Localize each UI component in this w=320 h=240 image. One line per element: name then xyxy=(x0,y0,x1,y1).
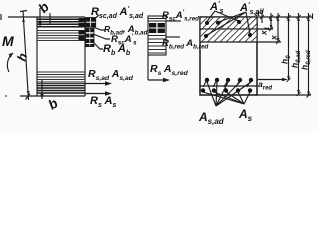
fan lines lower dots to As label point xyxy=(203,92,250,104)
svg-text:M: M xyxy=(2,33,14,49)
bottom edge line extended left xyxy=(20,95,85,97)
hatched compression band 2 xyxy=(201,30,257,42)
stripe between bottom bands xyxy=(37,83,85,85)
speck near bottom line xyxy=(5,95,7,97)
lower added-layer band lines xyxy=(200,85,257,87)
leader to label Rsc A's xyxy=(93,34,110,39)
stems from upper dots xyxy=(203,80,251,87)
top compression stripes band Rb,ad xyxy=(37,19,85,27)
leader Rb,red Ab,red xyxy=(166,36,180,38)
x1 dimension line xyxy=(270,13,272,29)
h0,ad dimension line xyxy=(298,13,300,94)
h0,red dimension line xyxy=(308,13,310,96)
upper tension dots row As,ad xyxy=(205,78,253,82)
fan lines from A's xyxy=(207,11,239,22)
bottom tension stripes band upper xyxy=(37,72,85,82)
top reinforcement dots A's row xyxy=(205,20,241,25)
cell column border xyxy=(86,18,96,27)
hatched compression band 1 xyxy=(201,18,257,29)
block top stripes xyxy=(148,19,166,22)
bottom tension stripes band lower xyxy=(37,86,85,94)
h0 dimension line xyxy=(288,13,290,80)
second compression stripes band Rb xyxy=(37,31,85,41)
b tick second xyxy=(49,13,51,24)
block lower stripes xyxy=(148,36,166,54)
leader to label Rb Ab xyxy=(93,42,103,49)
lower tension dots row As xyxy=(201,88,252,92)
reinforcement force cell column (A's blocks) xyxy=(86,18,96,47)
top edge line extended left xyxy=(8,16,85,18)
a' dim tick xyxy=(261,11,263,23)
fan lines from A's,ad xyxy=(207,12,250,35)
a_red dimension line xyxy=(258,79,285,81)
x dimension line xyxy=(277,13,279,42)
top extension line xyxy=(257,16,313,18)
vertical edge down from block xyxy=(147,55,149,80)
bottom layer tick arrow xyxy=(41,80,43,99)
tension force arrow Rs,ad As,ad xyxy=(85,83,108,85)
right edge xyxy=(84,17,86,96)
tension force arrow Rs As xyxy=(85,93,108,95)
left edge xyxy=(36,17,38,96)
band 1 bottom line xyxy=(200,28,273,30)
inner dark cells at right end of bands xyxy=(79,18,85,41)
fan lines upper dots to As,ad label point xyxy=(207,82,251,106)
h dimension line xyxy=(23,11,29,100)
moment arc arrow xyxy=(7,53,13,72)
bottom extension line xyxy=(257,94,311,96)
block dark cells xyxy=(149,23,165,33)
b width tick with arrow xyxy=(39,8,41,27)
section outline xyxy=(200,17,257,95)
leader to label Rb,ad Ab,ad xyxy=(93,27,105,30)
arrow Rs As,red xyxy=(148,79,166,81)
block outline xyxy=(148,16,166,55)
slash ticks at top extension line crossings xyxy=(260,15,311,19)
leader to label Rsc,ad A's,ad xyxy=(93,15,99,20)
band 2 bottom line xyxy=(200,41,281,43)
top reinforcement dots in band2 xyxy=(204,33,252,38)
slash ticks at dimension terminations xyxy=(269,27,311,98)
top line end tick xyxy=(312,14,314,20)
leader Rsc A's,red xyxy=(166,20,181,22)
